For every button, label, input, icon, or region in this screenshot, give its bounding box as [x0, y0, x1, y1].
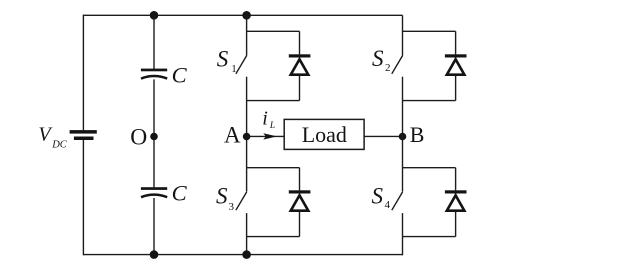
wire S1 top branch — [247, 30, 300, 32]
junction dot bottom rail capacitor branch — [150, 250, 159, 259]
capacitor C1 — [141, 69, 167, 79]
svg-text:V: V — [38, 123, 53, 145]
load box — [284, 119, 364, 149]
wire leg B upper contact — [402, 15, 404, 55]
capacitor C2 — [141, 187, 167, 197]
label S3 — [216, 184, 235, 213]
svg-text:B: B — [410, 122, 425, 147]
svg-text:i: i — [262, 108, 268, 130]
svg-text:A: A — [224, 123, 241, 148]
diode D1 — [289, 31, 311, 100]
wire S3 top branch — [247, 167, 300, 169]
diode D3 — [289, 168, 311, 237]
wire S4 bottom branch — [403, 236, 456, 238]
node A — [243, 133, 251, 141]
wire S3 bottom branch — [247, 236, 300, 238]
switch S3 blade — [236, 192, 247, 210]
svg-text:DC: DC — [51, 140, 68, 151]
wire S2 top branch — [403, 30, 456, 32]
switch S2 blade — [392, 56, 403, 74]
svg-text:Load: Load — [302, 122, 347, 147]
label S4 — [372, 183, 391, 211]
svg-text:L: L — [269, 121, 275, 131]
svg-text:S: S — [217, 46, 229, 71]
junction dot top rail capacitor branch — [150, 11, 159, 20]
diode D4 — [445, 168, 467, 237]
wire A to load with arrow — [247, 133, 285, 139]
wire capacitor branch middle — [153, 79, 155, 187]
wire load to B — [364, 135, 402, 137]
svg-text:S: S — [216, 184, 228, 209]
wire S2 bottom branch — [403, 100, 456, 102]
battery V_DC — [70, 130, 97, 140]
label V_DC — [38, 123, 67, 150]
wire leg A middle — [246, 77, 248, 192]
svg-text:3: 3 — [229, 201, 235, 213]
svg-text:C: C — [172, 180, 188, 205]
node O — [150, 133, 158, 141]
svg-text:O: O — [130, 125, 147, 151]
wire top rail — [83, 14, 402, 16]
label S2 — [372, 46, 391, 74]
switch S1 blade — [236, 56, 247, 74]
wire left branch lower — [82, 140, 84, 255]
wire S1 bottom branch — [247, 100, 300, 102]
svg-text:C: C — [172, 62, 188, 87]
label i_L — [262, 108, 275, 132]
wire S4 top branch — [403, 167, 456, 169]
junction dot bottom rail leg A — [242, 250, 251, 259]
wire leg B lower — [402, 213, 404, 255]
svg-text:S: S — [372, 46, 384, 71]
label S1 — [217, 46, 237, 75]
switch S4 blade — [392, 192, 403, 210]
wire leg A lower — [246, 213, 248, 255]
wire leg B middle — [402, 77, 404, 192]
svg-text:S: S — [372, 183, 384, 208]
wire capacitor branch upper — [153, 15, 155, 69]
svg-text:2: 2 — [385, 62, 391, 74]
wire left branch upper — [82, 15, 84, 131]
junction dot top rail leg A — [242, 11, 251, 20]
wire bottom rail — [83, 254, 402, 256]
wire capacitor branch lower — [153, 198, 155, 255]
node B — [399, 133, 407, 141]
svg-text:1: 1 — [231, 63, 237, 75]
svg-text:4: 4 — [385, 199, 391, 211]
diode D2 — [445, 31, 467, 100]
wire leg A upper contact — [246, 15, 248, 55]
